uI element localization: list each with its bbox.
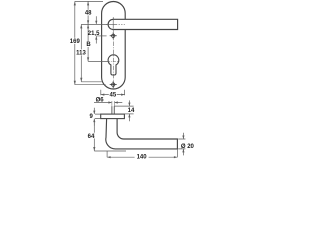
extension line top of plate — [75, 0, 103, 2]
screw hole symbol top (cross) — [110, 32, 117, 39]
label 113 — [76, 49, 86, 56]
label 64 — [88, 133, 95, 140]
dimension 169 line — [74, 1, 76, 84]
screw hole symbol bottom (cross) — [110, 81, 117, 88]
svg-text:14: 14 — [128, 108, 135, 114]
dimension 140 — [107, 149, 177, 158]
svg-text:113: 113 — [76, 51, 86, 57]
dimension 14 (spindle top to rose top) — [114, 100, 133, 121]
extension line 113 bottom — [81, 81, 101, 83]
svg-text:Ø 20: Ø 20 — [181, 144, 195, 150]
dimension 64 (rose bottom to grip underside) — [93, 119, 95, 151]
svg-text:48: 48 — [85, 11, 92, 17]
dimension 113 line — [80, 24, 82, 81]
handle axis horizontal centerline — [106, 23, 125, 25]
label 9 — [89, 113, 93, 120]
euro profile cylinder hole — [108, 55, 119, 75]
svg-text:45: 45 — [110, 93, 117, 99]
svg-text:169: 169 — [70, 39, 81, 45]
spindle / screw stem — [112, 106, 114, 114]
svg-text:21,5: 21,5 — [88, 31, 100, 37]
plate vertical centerline — [112, 17, 114, 88]
svg-text:Ø6: Ø6 — [96, 97, 105, 103]
label 140 — [136, 153, 147, 160]
dimension 9 (rose thickness, outside arrows) — [93, 108, 100, 126]
lever neck + bend + grip bar (side profile) — [106, 119, 178, 149]
dimension B line — [87, 24, 89, 61]
extension line handle axis — [81, 23, 108, 25]
svg-text:B: B — [86, 42, 91, 48]
label 14 — [127, 107, 135, 114]
label 169 — [70, 38, 81, 45]
extension line grip underside — [94, 150, 126, 152]
Ø6 leader arrows — [94, 101, 122, 106]
plate outline (rounded backplate 45x169) — [102, 2, 126, 90]
lever handle (front view) bar — [113, 19, 177, 29]
svg-text:140: 140 — [137, 155, 148, 161]
extension line top screw — [96, 35, 106, 37]
dimension 48 line — [87, 1, 89, 24]
cylinder hole crosshair — [108, 61, 120, 63]
dimension 21.5 (outside arrows) — [95, 16, 97, 43]
extension line cylinder center — [88, 60, 108, 62]
label Ø 20 — [180, 141, 195, 150]
label 21,5 — [88, 30, 100, 37]
dimension Ø20 (grip diameter, outside arrows) — [178, 133, 185, 156]
label B — [86, 41, 91, 48]
lever rounded end cap — [108, 19, 113, 29]
handle axis vertical centerline over cap — [112, 17, 114, 31]
dimension 45 (plate width, below plate) — [101, 90, 125, 96]
extension line 169 bottom — [75, 84, 106, 86]
svg-text:64: 64 — [88, 134, 95, 140]
rose / backplate edge-on — [101, 114, 125, 119]
label 48 — [85, 10, 92, 17]
